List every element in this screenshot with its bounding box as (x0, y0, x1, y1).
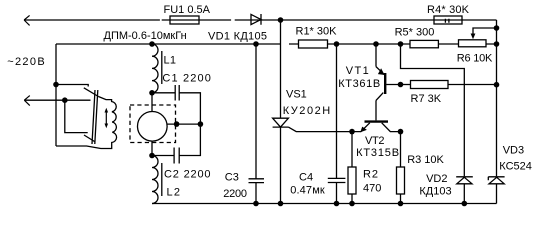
svg-text:КС524: КС524 (499, 161, 532, 173)
svg-text:VT2: VT2 (365, 135, 385, 147)
thyristor VS1 anode wire (280, 20, 282, 118)
node R2 bottom (349, 201, 355, 207)
svg-text:VD1 КД105: VD1 КД105 (208, 31, 267, 43)
arrow left middle (24, 99, 90, 101)
svg-text:VT1: VT1 (346, 65, 369, 77)
capacitor C4 (328, 44, 346, 204)
svg-text:VD2: VD2 (426, 173, 447, 185)
svg-text:ДПМ-0.6-10мкГн: ДПМ-0.6-10мкГн (104, 30, 187, 42)
svg-text:C4: C4 (299, 172, 313, 184)
node VS1 bottom (278, 201, 284, 207)
wire top line (24, 19, 496, 21)
svg-text:КТ315В: КТ315В (356, 147, 399, 159)
svg-text:R5* 300: R5* 300 (395, 27, 435, 39)
fuse FU1 (170, 16, 199, 24)
motor M1 (138, 112, 168, 142)
resistor R5 (410, 40, 438, 47)
thyristor VS1 (273, 118, 289, 127)
svg-text:~220В: ~220В (7, 56, 45, 68)
wire VS1 cathode (280, 127, 282, 203)
svg-text:C2 2200: C2 2200 (164, 169, 211, 181)
resistor R1 (299, 40, 328, 48)
wire R6 wiper (473, 28, 497, 34)
resistor R4 (434, 16, 462, 24)
zener VD3 (488, 177, 504, 184)
potentiometer R6 (459, 40, 487, 47)
node motor top (149, 90, 155, 96)
svg-text:R7 3K: R7 3K (411, 93, 442, 105)
wire right rail (496, 20, 498, 176)
diode VD1 (251, 14, 261, 25)
node top junction (278, 17, 284, 23)
svg-text:R6 10K: R6 10K (457, 53, 493, 65)
svg-text:КД103: КД103 (419, 186, 451, 198)
svg-text:C3: C3 (225, 172, 239, 184)
vibrator yoke top (56, 85, 98, 97)
node R3 bottom (398, 201, 404, 207)
motor case dashed (130, 105, 176, 143)
resistor R7 (401, 84, 411, 86)
transistor VT1 (376, 44, 401, 100)
node L1 top (149, 41, 155, 47)
capacitor C3 (249, 44, 265, 204)
svg-text:C1 2200: C1 2200 (162, 73, 211, 85)
vibrator armature (92, 90, 98, 144)
node brush b (198, 121, 204, 127)
wire mains line 2 (56, 43, 497, 45)
capacitor C2 (152, 124, 200, 163)
svg-text:470: 470 (363, 183, 381, 195)
wire bottom rail (152, 203, 497, 205)
vibrator coil (56, 97, 117, 149)
node C4 top (334, 41, 340, 47)
wire motor bottom lead (151, 141, 153, 155)
vibrator inner bracket (65, 100, 95, 141)
svg-text:R4* 30K: R4* 30K (427, 4, 470, 16)
arrow left top (24, 15, 30, 25)
node C3 bottom (253, 201, 259, 207)
node vibrator feed (62, 97, 68, 103)
wire VD2 branch (401, 44, 465, 176)
svg-text:2200: 2200 (223, 188, 247, 200)
node VT2 collector (398, 129, 404, 135)
node motor bottom (149, 153, 155, 159)
resistor R2 (351, 132, 353, 167)
node right rail upper (494, 25, 500, 31)
node brush a (174, 121, 180, 127)
svg-text:R1* 30K: R1* 30K (296, 26, 338, 38)
node right rail R7 (494, 82, 500, 88)
svg-text:FU1 0.5A: FU1 0.5A (164, 4, 211, 16)
node VT1 emitter top (373, 41, 379, 47)
vibrator motion arrow (105, 112, 107, 124)
inductor L2 (152, 156, 158, 204)
svg-text:L1: L1 (164, 55, 177, 67)
svg-text:R3 10K: R3 10K (407, 154, 444, 166)
svg-text:КУ202Н: КУ202Н (283, 105, 331, 117)
node VD2 bottom (462, 201, 468, 207)
node R6 right (494, 41, 500, 47)
capacitor C1 (152, 85, 200, 124)
node VT2 emitter (349, 129, 355, 135)
wire VS1 gate (288, 127, 352, 132)
svg-text:VS1: VS1 (286, 89, 307, 101)
node R7 base (398, 82, 404, 88)
svg-text:КТ361В: КТ361В (338, 78, 380, 90)
svg-text:0.47мк: 0.47мк (290, 185, 325, 197)
svg-text:VD3: VD3 (503, 145, 524, 157)
wire motor brush (167, 123, 200, 125)
node C3 top (253, 41, 259, 47)
svg-text:R2: R2 (363, 169, 378, 181)
diode VD2 (456, 177, 473, 184)
core L1 (161, 51, 163, 84)
node divider top (398, 41, 404, 47)
node C4 bottom (334, 201, 340, 207)
node vibrator top (53, 82, 59, 88)
inductor L1 (152, 44, 158, 93)
wire motor top lead (151, 93, 153, 112)
svg-text:L2: L2 (167, 187, 181, 199)
wire left drop (55, 44, 57, 146)
core L2 (161, 163, 163, 196)
transistor VT2 (352, 100, 401, 131)
resistor R3 (400, 132, 402, 167)
